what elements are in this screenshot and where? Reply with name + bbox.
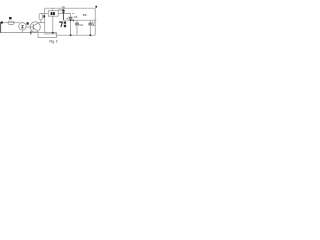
svg-text:5V: 5V bbox=[62, 5, 66, 9]
svg-text:R5: R5 bbox=[83, 13, 87, 17]
svg-text:Fig. 2: Fig. 2 bbox=[50, 39, 58, 43]
svg-text:C1: C1 bbox=[74, 15, 78, 19]
svg-text:uF: uF bbox=[92, 23, 95, 27]
svg-text:C2: C2 bbox=[79, 23, 83, 27]
